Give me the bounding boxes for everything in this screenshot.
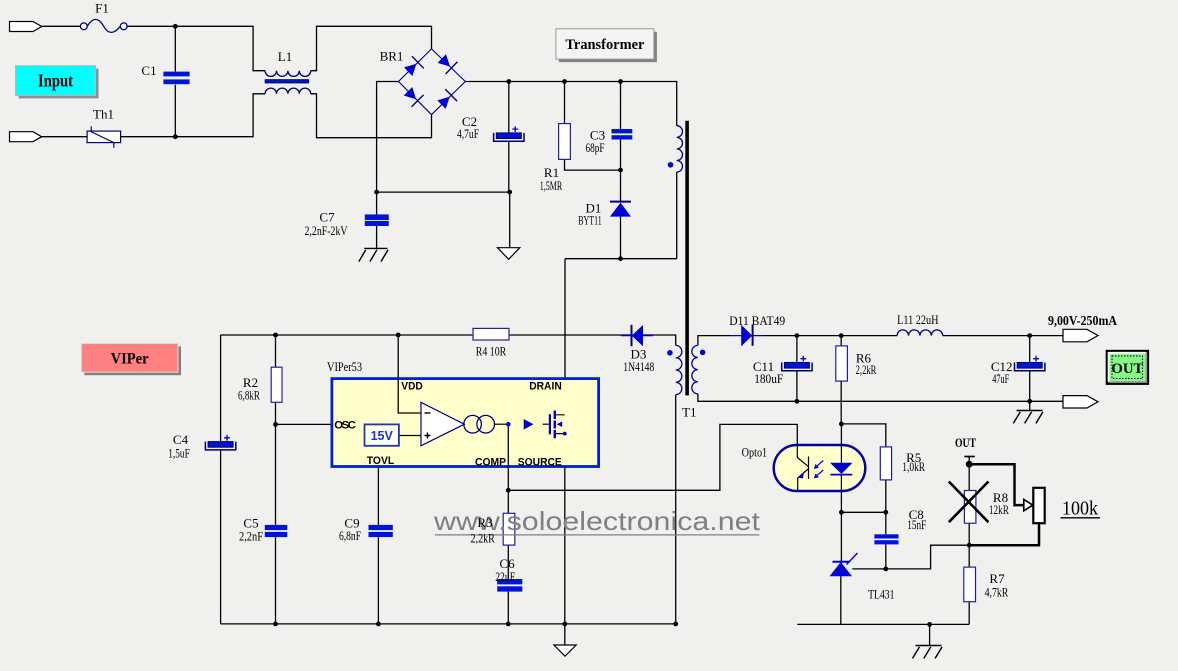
svg-text:2,2kR: 2,2kR (471, 530, 496, 545)
svg-text:4,7uF: 4,7uF (457, 126, 479, 141)
svg-text:OUT: OUT (955, 435, 976, 450)
svg-text:R4 10R: R4 10R (476, 343, 507, 358)
svg-text:C1: C1 (141, 63, 156, 78)
svg-text:VIPer53: VIPer53 (327, 359, 362, 374)
svg-text:F1: F1 (95, 1, 109, 16)
svg-text:SOURCE: SOURCE (518, 456, 562, 468)
svg-text:6,8kR: 6,8kR (238, 387, 260, 402)
svg-text:6,8nF: 6,8nF (339, 528, 361, 543)
svg-text:1,5MR: 1,5MR (540, 178, 563, 193)
svg-text:Input: Input (38, 71, 73, 91)
svg-text:68pF: 68pF (586, 140, 605, 155)
svg-text:9,00V-250mA: 9,00V-250mA (1048, 313, 1117, 328)
svg-text:BR1: BR1 (380, 49, 404, 64)
svg-text:4,7kR: 4,7kR (985, 585, 1009, 600)
svg-text:180uF: 180uF (754, 371, 783, 386)
svg-text:47uF: 47uF (992, 371, 1009, 386)
svg-text:L11 22uH: L11 22uH (897, 312, 938, 327)
svg-text:VIPer: VIPer (111, 350, 149, 367)
svg-text:2,2nF-2kV: 2,2nF-2kV (305, 223, 348, 238)
svg-text:1,5uF: 1,5uF (168, 446, 190, 461)
svg-text:Th1: Th1 (93, 107, 114, 122)
svg-text:15nF: 15nF (907, 517, 926, 532)
svg-text:OSC: OSC (334, 420, 357, 432)
svg-text:L1: L1 (278, 49, 292, 64)
svg-text:Transformer: Transformer (565, 37, 644, 53)
svg-text:D11 BAT49: D11 BAT49 (729, 313, 785, 328)
svg-text:2,2nF: 2,2nF (239, 529, 263, 544)
svg-text:1,0kR: 1,0kR (902, 459, 925, 474)
svg-text:Opto1: Opto1 (742, 445, 768, 460)
svg-text:BYT11: BYT11 (578, 213, 602, 228)
svg-text:TL431: TL431 (868, 587, 894, 602)
svg-text:DRAIN: DRAIN (529, 381, 562, 393)
svg-text:15V: 15V (371, 429, 394, 443)
svg-text:1N4148: 1N4148 (623, 359, 654, 374)
svg-text:12kR: 12kR (989, 502, 1009, 517)
svg-text:R3: R3 (477, 515, 492, 530)
svg-text:TOVL: TOVL (367, 455, 394, 467)
svg-text:22uF: 22uF (495, 569, 515, 584)
svg-text:2,2kR: 2,2kR (856, 362, 877, 377)
svg-text:COMP: COMP (475, 456, 506, 468)
svg-text:OUT: OUT (1111, 361, 1143, 377)
svg-text:100k: 100k (1062, 498, 1098, 520)
svg-text:VDD: VDD (401, 381, 423, 393)
svg-text:T1: T1 (682, 405, 696, 420)
